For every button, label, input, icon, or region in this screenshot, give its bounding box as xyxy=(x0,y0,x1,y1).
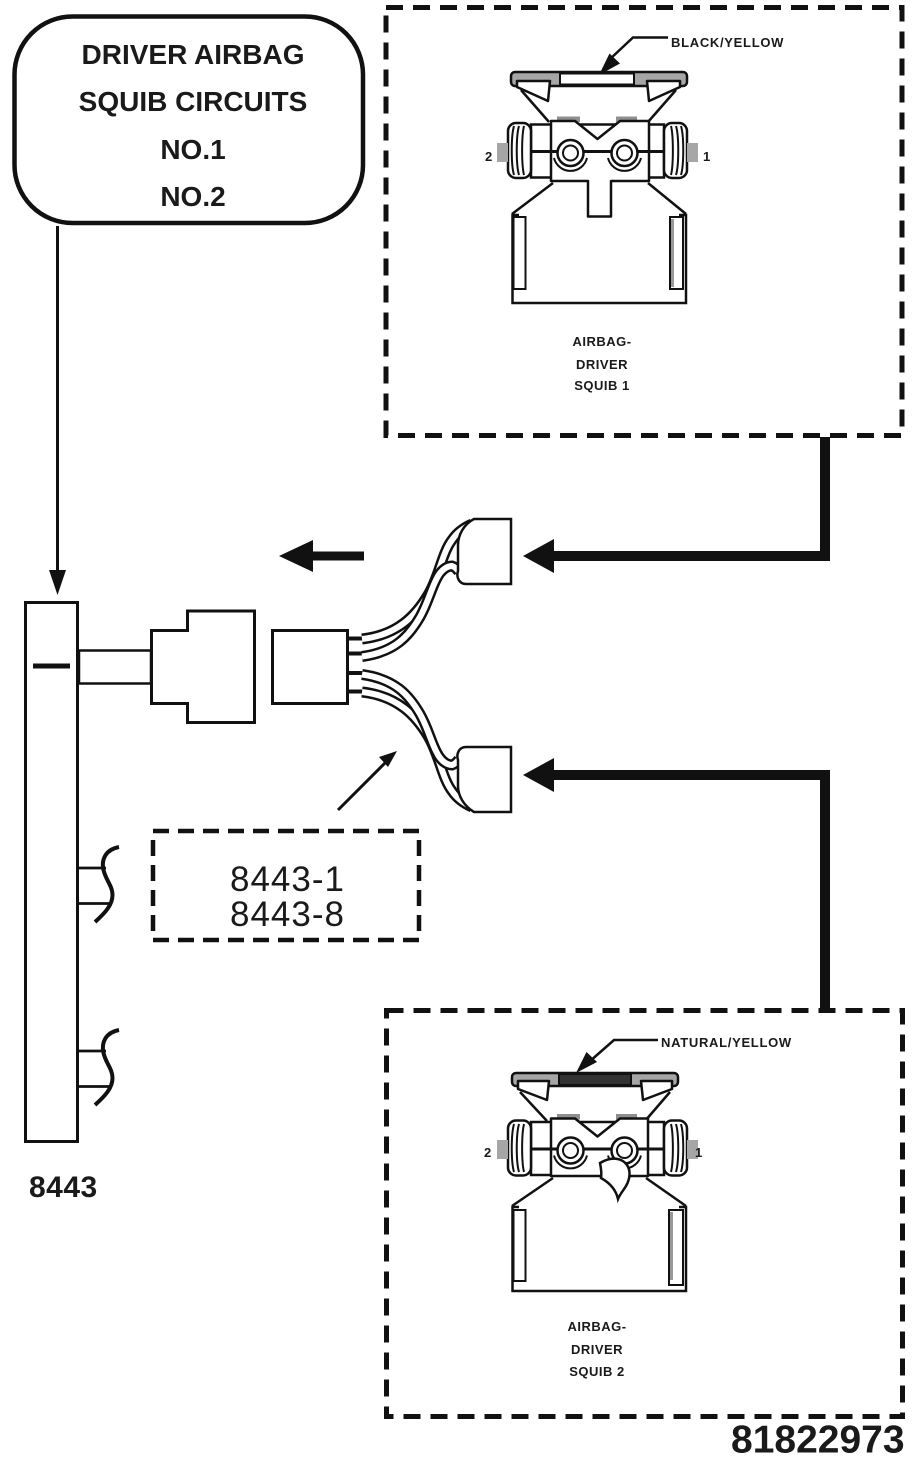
svg-text:NO.2: NO.2 xyxy=(160,181,225,212)
heavy wire from squib1 box to upper pigtail with arrowhead xyxy=(523,437,825,573)
node DRIVER AIRBAG SQUIB CIRCUITS label box xyxy=(15,17,364,224)
squib2 connector terminal pins 1 and 2 xyxy=(531,1138,664,1169)
dashed boundary box squib2 xyxy=(387,1011,903,1417)
wire from label box down to 8443 bar with arrowhead xyxy=(49,226,66,595)
caption AIRBAG- DRIVER SQUIB 2 xyxy=(567,1319,626,1379)
svg-text:BLACK/YELLOW: BLACK/YELLOW xyxy=(671,35,784,50)
wire pair down to squib2 pigtail connector xyxy=(362,675,472,808)
connector squiggle lower on bar xyxy=(79,1030,119,1105)
squib2 connector cylinder and end caps xyxy=(497,1121,698,1176)
squib1 connector center block with V-notch and T-tab xyxy=(551,117,649,217)
left-pointing flow arrow xyxy=(279,540,364,572)
connector squiggle upper on bar xyxy=(79,847,119,922)
dashed label box 8443-1 8443-8 xyxy=(153,831,419,940)
inline connector socket (square) xyxy=(273,631,348,704)
squib2 connector body shell xyxy=(512,1178,686,1291)
svg-text:1: 1 xyxy=(703,149,710,164)
inline connector plug (stepped) xyxy=(152,611,255,723)
svg-text:SQUIB 2: SQUIB 2 xyxy=(569,1364,625,1379)
node 8443 vertical bus bar xyxy=(26,603,78,1142)
svg-text:DRIVER: DRIVER xyxy=(571,1342,623,1357)
svg-text:AIRBAG-: AIRBAG- xyxy=(572,334,631,349)
squib2 connector center block with V-notch xyxy=(551,1114,648,1176)
pigtail connector to squib2 xyxy=(457,747,511,812)
label NATURAL/YELLOW with leader arrow xyxy=(576,1035,792,1073)
heavy wire from squib2 box to lower pigtail with arrowhead xyxy=(523,758,825,1009)
pigtail connector to squib1 xyxy=(457,519,511,584)
squib1 connector terminal pins 1 and 2 xyxy=(531,140,664,171)
svg-text:8443: 8443 xyxy=(29,1171,98,1204)
svg-text:DRIVER: DRIVER xyxy=(576,357,628,372)
svg-text:1: 1 xyxy=(695,1145,702,1160)
squib1 connector cylinder and end caps xyxy=(497,123,698,178)
svg-text:2: 2 xyxy=(485,149,492,164)
svg-text:SQUIB 1: SQUIB 1 xyxy=(574,378,630,393)
svg-text:SQUIB CIRCUITS: SQUIB CIRCUITS xyxy=(79,86,308,117)
wire channel from 8443 bar to inline connector xyxy=(79,651,151,684)
svg-text:NATURAL/YELLOW: NATURAL/YELLOW xyxy=(661,1035,792,1050)
svg-text:8443-8: 8443-8 xyxy=(230,895,345,934)
svg-text:NO.1: NO.1 xyxy=(160,134,225,165)
squib2 connector index hook xyxy=(600,1159,630,1199)
svg-text:AIRBAG-: AIRBAG- xyxy=(567,1319,626,1334)
svg-text:DRIVER AIRBAG: DRIVER AIRBAG xyxy=(82,39,305,70)
caption AIRBAG- DRIVER SQUIB 1 xyxy=(572,334,631,393)
svg-text:2: 2 xyxy=(484,1145,491,1160)
dashed boundary box squib1 xyxy=(386,8,902,436)
squib1 connector body shell xyxy=(512,183,686,303)
wire pair up to squib1 pigtail connector xyxy=(362,524,472,657)
svg-text:8443-1: 8443-1 xyxy=(230,860,345,899)
connector AIRBAG-DRIVER SQUIB 2 xyxy=(497,1073,698,1291)
squib2 connector retainer bar and wings xyxy=(512,1073,678,1121)
callout arrow to pigtail junction xyxy=(338,751,397,810)
label BLACK/YELLOW with leader arrow xyxy=(599,35,784,75)
wire stubs from socket xyxy=(348,639,367,692)
squib1 connector retainer bar and wings xyxy=(511,72,687,122)
svg-text:81822973: 81822973 xyxy=(731,1419,905,1462)
connector AIRBAG-DRIVER SQUIB 1 xyxy=(497,72,698,303)
